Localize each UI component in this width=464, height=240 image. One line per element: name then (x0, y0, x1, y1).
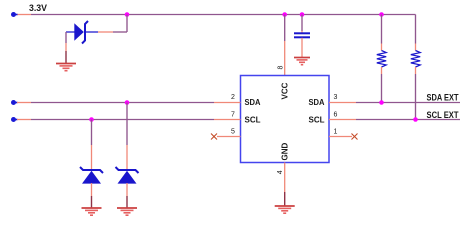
svg-text:SCL: SCL (309, 115, 325, 124)
wire SCL (17, 119, 214, 121)
wire D2 branch (91, 120, 93, 170)
junction top rail / VCC pin (282, 12, 287, 17)
pin 5 (217, 129, 241, 137)
svg-text:SCL: SCL (245, 115, 261, 124)
junction SDA EXT / R1 (379, 100, 384, 105)
wire top rail 3.3V (17, 14, 416, 16)
pin 2 SDA (214, 94, 261, 107)
pin 1 (329, 129, 352, 137)
zener diode D2 (80, 167, 103, 184)
svg-text:7: 7 (231, 112, 235, 119)
svg-text:SDA EXT: SDA EXT (427, 92, 459, 103)
wire SCL EXT (356, 119, 460, 121)
port SDA (11, 100, 18, 105)
svg-text:GND: GND (281, 143, 290, 161)
wire R1 top (381, 15, 383, 51)
wire D1 branch (98, 15, 127, 33)
resistor R2 (411, 51, 420, 68)
junction top rail / D1 branch (125, 12, 130, 17)
pin 4 GND (277, 163, 285, 193)
svg-text:6: 6 (334, 112, 338, 119)
resistor R1 (377, 51, 386, 68)
pin 8 VCC (278, 41, 285, 76)
wire C1 branch (301, 15, 303, 33)
junction top rail / C1 branch (300, 12, 305, 17)
svg-text:2: 2 (231, 94, 235, 101)
svg-text:3: 3 (334, 94, 338, 101)
svg-text:8: 8 (278, 65, 285, 69)
wire D3 branch (126, 103, 128, 170)
wire C1 to ground (301, 38, 303, 58)
wire GND pin to ground (284, 192, 286, 206)
ground U1 (275, 206, 295, 213)
port 3.3V (11, 12, 18, 17)
wire R2 top (corner from rail) (415, 15, 417, 51)
wire D3 anode (126, 183, 128, 208)
ground C1 (294, 58, 310, 65)
pin 6 SCL (309, 112, 357, 125)
capacitor C1 (294, 33, 310, 37)
zener diode D3 (116, 167, 139, 184)
wire R2 bottom (415, 67, 417, 120)
wire VCC branch (284, 15, 286, 42)
junction SDA / D3 branch (125, 100, 130, 105)
wire D2 anode (91, 183, 93, 208)
wire SDA EXT (356, 102, 460, 104)
junction top rail / R1 (379, 12, 384, 17)
svg-text:1: 1 (334, 129, 338, 136)
svg-text:SDA: SDA (245, 98, 261, 107)
no-connect X pin 5 (211, 134, 217, 140)
wire R1 bottom (381, 67, 383, 103)
wire D1 anode to ground (65, 32, 67, 51)
svg-text:3.3V: 3.3V (29, 3, 47, 13)
junction SCL / D2 branch (89, 117, 94, 122)
svg-text:SCL EXT: SCL EXT (427, 110, 459, 121)
svg-text:5: 5 (231, 129, 235, 136)
ground D1 (56, 51, 76, 71)
ground D2 (82, 208, 102, 215)
junction SCL EXT / R2 (413, 117, 418, 122)
port SCL (11, 117, 18, 122)
svg-text:VCC: VCC (281, 82, 290, 99)
svg-text:SDA: SDA (309, 98, 325, 107)
IC U1 body (241, 76, 330, 163)
wire SDA (17, 102, 214, 104)
no-connect X pin 1 (352, 134, 358, 140)
pin 7 SCL (214, 112, 261, 125)
pin 3 SDA (309, 94, 357, 107)
zener diode D1 (66, 21, 98, 44)
svg-text:4: 4 (277, 170, 284, 174)
ground D3 (117, 208, 137, 215)
